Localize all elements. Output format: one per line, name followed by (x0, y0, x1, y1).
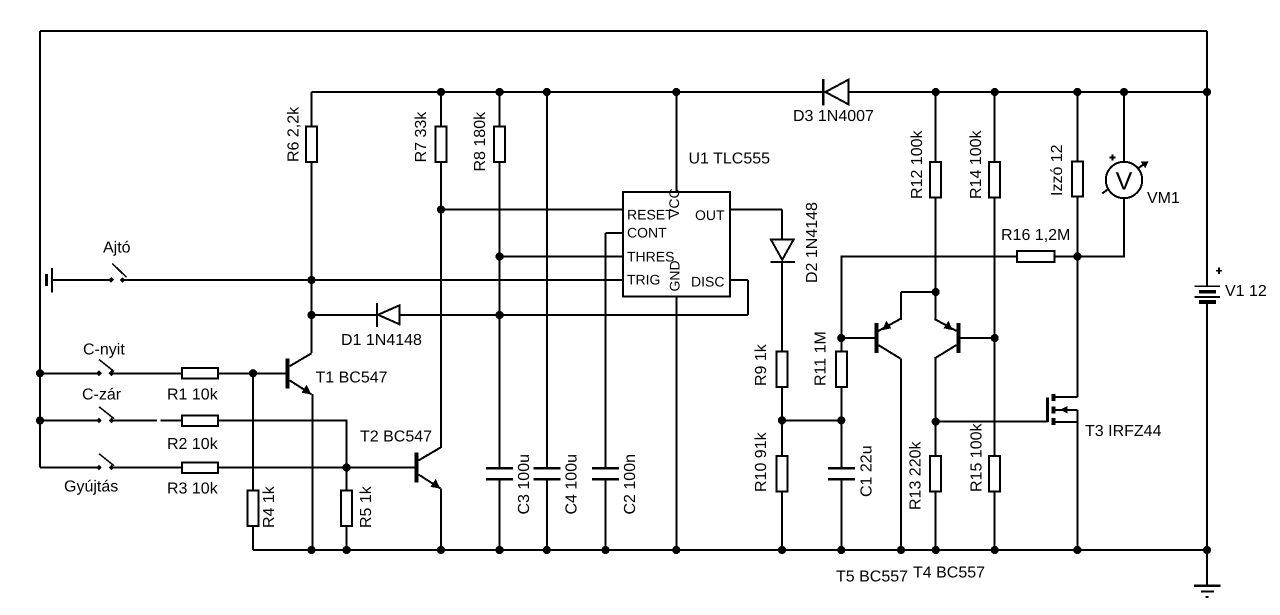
svg-text:T1 BC547: T1 BC547 (316, 370, 388, 387)
node bottom bus C4 (543, 546, 551, 554)
wire R15 bottom (994, 492, 996, 550)
resistor R1 (182, 368, 218, 379)
resistor R15 (989, 456, 1000, 492)
wire emitter bridge T5-T4 (901, 291, 936, 293)
node bottom bus C3 (496, 546, 504, 554)
svg-text:D2 1N4148: D2 1N4148 (804, 202, 821, 283)
wire RESET row (441, 209, 623, 211)
node R7 at VCC bus (437, 88, 445, 96)
wire left rail (39, 31, 41, 468)
wire T5 collector down (900, 359, 902, 551)
svg-text:Izzó 12: Izzó 12 (1049, 144, 1066, 196)
node bridge at R11-C1 column (837, 416, 845, 424)
node C-nyit at left rail (36, 369, 44, 377)
node bottom bus right rail (1203, 546, 1211, 554)
wire lamp bottom to T3 drain (1076, 196, 1078, 397)
node bottom bus U1 GND (672, 546, 680, 554)
wire C-nyit switch to R1 (112, 372, 183, 374)
ground symbol (1194, 585, 1221, 587)
wire U1 GND pin (675, 297, 677, 551)
wire CONT pin stub (606, 232, 624, 234)
transistor Q T5 BC557 (874, 323, 878, 353)
node VCC bus right end (1203, 88, 1211, 96)
resistor R9 (777, 352, 788, 388)
capacitor C1 22u (828, 467, 855, 470)
svg-text:U1 TLC555: U1 TLC555 (689, 151, 771, 168)
switch C-zar (96, 418, 102, 424)
wire VCC bus right of D3 (849, 91, 1208, 93)
resistor R8 (494, 127, 505, 163)
wire R13 bottom (935, 492, 937, 550)
svg-text:R8 180k: R8 180k (472, 111, 489, 172)
wire C-zar row left (40, 420, 99, 422)
wire R1 to T1 base (218, 372, 288, 374)
wire R14 bottom to R15 top (994, 198, 996, 456)
resistor R4 (248, 491, 259, 527)
wire voltmeter bottom corner (1077, 198, 1124, 257)
node T4 base at R14-R15 column (991, 334, 999, 342)
node R8 at VCC bus (496, 88, 504, 96)
wire C-nyit row left (40, 372, 99, 374)
svg-text:R11 1M: R11 1M (813, 331, 830, 386)
wire R7 bottom / T2 collector column (440, 162, 442, 448)
switch Gyujtas (96, 465, 102, 471)
wire T4 base (959, 337, 995, 339)
wire CONT to C2 column (605, 233, 607, 467)
wire C4 bottom (546, 481, 548, 550)
node R14 at VCC bus (991, 88, 999, 96)
svg-text:DISC: DISC (691, 274, 724, 290)
wire T3 gate (936, 421, 1048, 423)
wire R8 top (499, 92, 501, 127)
wire T3 source down (1076, 410, 1078, 550)
battery plus sign (1216, 270, 1222, 272)
resistor R11 (836, 352, 847, 388)
wire C-zar switch segment (112, 420, 158, 422)
wire R5 bottom (346, 526, 348, 550)
resistor R2 (182, 415, 218, 426)
wire Gyujtas switch to R3 (112, 467, 183, 469)
wire R6 bottom / T1 collector column (311, 162, 313, 353)
wire R6 top (311, 92, 313, 127)
svg-text:R16 1,2M: R16 1,2M (1001, 227, 1070, 244)
transistor T3 IRFZ44 MOSFET (1046, 398, 1049, 423)
wire R10 bottom (781, 492, 783, 551)
wire R11 column top corner to R16 row (841, 257, 1017, 352)
node C4 at VCC bus (543, 88, 551, 96)
wire R7 top (440, 92, 442, 127)
diode D2 1N4148 (771, 240, 794, 260)
node lamp at VCC bus (1073, 88, 1081, 96)
IC U1 TLC555 body (623, 192, 730, 297)
node THRES at R8 column (496, 252, 504, 260)
resistor R13 (930, 456, 941, 492)
resistor R12 (930, 162, 941, 198)
node T4 collector / T3 gate junction (932, 418, 940, 426)
voltmeter arrow (1102, 164, 1144, 194)
node bottom bus T1 emitter (307, 546, 315, 554)
svg-text:R5 1k: R5 1k (358, 485, 375, 528)
resistor R6 (306, 127, 317, 163)
svg-text:R15 100k: R15 100k (969, 423, 986, 492)
svg-text:C3 100u: C3 100u (516, 454, 533, 515)
capacitor C4 100u (533, 467, 560, 470)
node emitter bridge at R12 column (932, 288, 940, 296)
switch Ajto (108, 277, 114, 283)
capacitor C3 100u (486, 467, 513, 470)
svg-text:VCC: VCC (666, 188, 682, 218)
svg-text:C1 22u: C1 22u (859, 445, 876, 497)
node Ajto-TRIG junction (307, 276, 315, 284)
svg-text:V: V (1116, 168, 1133, 196)
node C-zar at left rail (36, 416, 44, 424)
wire R12 bottom to emitter bridge (935, 198, 937, 292)
svg-text:R3 10k: R3 10k (167, 481, 219, 498)
wire OUT pin stub (730, 209, 782, 211)
wire R16 right to lamp column (1055, 256, 1078, 258)
svg-text:R2 10k: R2 10k (167, 436, 219, 453)
wire C2 bottom (605, 481, 607, 550)
wire R9 bottom to R10 top (781, 386, 783, 456)
wire R11 bottom to C1 (840, 386, 842, 467)
wire R5 column (346, 468, 348, 491)
svg-text:V1 12: V1 12 (1225, 283, 1267, 300)
svg-text:C4 100u: C4 100u (564, 454, 581, 515)
wire C4 column (546, 92, 548, 467)
node bottom bus C1 (837, 546, 845, 554)
lamp Izzo 12 (1072, 162, 1083, 197)
wire D1 row right to DISC loop (400, 314, 749, 316)
wire lamp top (1076, 92, 1078, 162)
wire OUT to D2 anode (781, 210, 783, 241)
svg-text:R14 100k: R14 100k (968, 130, 985, 199)
resistor R7 (436, 127, 447, 163)
wire D2 cathode to R9 (781, 262, 783, 352)
wire C1 bottom (840, 481, 842, 550)
wire voltmeter top (1123, 92, 1125, 162)
svg-text:T3 IRFZ44: T3 IRFZ44 (1085, 423, 1162, 440)
wire Gyujtas row left (40, 467, 99, 469)
door contact cell symbol (45, 274, 48, 286)
svg-text:D3 1N4007: D3 1N4007 (793, 108, 874, 125)
svg-text:R4 1k: R4 1k (261, 485, 278, 528)
svg-text:CONT: CONT (627, 225, 667, 241)
node bottom bus T3 source (1073, 546, 1081, 554)
svg-text:C-zár: C-zár (82, 387, 122, 404)
node D1 row at C3 column (496, 311, 504, 319)
svg-text:R9 1k: R9 1k (753, 343, 770, 386)
node R1-R4-T1 base junction (249, 369, 257, 377)
resistor R10 (777, 456, 788, 492)
node bottom bus C2 (601, 546, 609, 554)
node U1 VCC at bus (672, 88, 680, 96)
wire DISC pin stub (730, 279, 748, 281)
svg-text:Ajtó: Ajtó (103, 240, 131, 257)
voltmeter VM1 circle (1106, 162, 1142, 198)
node bottom bus R13 (932, 546, 940, 554)
transistor Q T2 BC547 (415, 453, 419, 483)
wire T5 emitter up (900, 292, 902, 320)
node bottom bus T2 emitter (437, 546, 445, 554)
wire R8 bottom to C3 (499, 162, 501, 467)
node bottom bus R5 (343, 546, 351, 554)
node bottom bus R15 (991, 546, 999, 554)
wire VCC bus left of D3 (312, 91, 823, 93)
resistor R16 1,2M (1017, 251, 1055, 262)
svg-text:VM1: VM1 (1147, 190, 1180, 207)
transistor Q T1 BC547 (286, 358, 290, 388)
wire R4 column (252, 373, 254, 490)
wire right rail upper (1206, 31, 1208, 287)
wire DISC loop vertical (747, 280, 749, 315)
switch C-nyit (96, 371, 102, 377)
wire door contact to switch (52, 279, 111, 281)
wire T1 emitter column (312, 394, 314, 550)
wire R3 to T2 base (218, 467, 417, 469)
battery V1 12 (1195, 285, 1221, 287)
wire top supply bus (40, 30, 1207, 32)
node R12 at VCC bus (932, 88, 940, 96)
node voltmeter at VCC bus (1120, 88, 1128, 96)
wire Ajto switch to TRIG pin (123, 279, 623, 281)
svg-text:R1 10k: R1 10k (167, 387, 219, 404)
svg-text:GND: GND (667, 260, 683, 291)
wire R12 top (935, 92, 937, 162)
svg-text:C2 100n: C2 100n (622, 454, 639, 515)
node bottom bus R10 (778, 546, 786, 554)
wire T2 emitter column (440, 489, 442, 551)
svg-text:OUT: OUT (695, 207, 725, 223)
wire C-zar gap segment to R2 (161, 420, 183, 422)
node T5 base junction (837, 334, 845, 342)
diode D3 1N4007 (822, 79, 824, 105)
wire R4 bottom corner (252, 526, 254, 550)
resistor R14 (989, 162, 1000, 198)
node bottom bus T5 collector (897, 546, 905, 554)
wire T4 emitter down from bridge (935, 292, 937, 320)
svg-text:R13 220k: R13 220k (908, 441, 925, 510)
wire T4 collector column (935, 359, 937, 457)
svg-text:TRIG: TRIG (627, 272, 660, 288)
node R3-R5-T2 base junction (343, 463, 351, 471)
wire THRES row (500, 256, 623, 258)
wire U1 VCC pin (675, 92, 677, 192)
svg-text:R7 33k: R7 33k (413, 111, 430, 163)
node R16-lamp-voltmeter junction (1073, 252, 1081, 260)
svg-text:T5 BC557: T5 BC557 (836, 569, 908, 586)
capacitor C2 100n (592, 467, 619, 470)
wire R9-R11 bridge (782, 419, 841, 421)
wire R14 top (994, 92, 996, 162)
voltmeter plus sign (1110, 157, 1116, 159)
svg-text:T2 BC547: T2 BC547 (360, 429, 432, 446)
wire R2 right corner down (218, 421, 347, 468)
wire D1 row left (312, 314, 378, 316)
svg-text:R10 91k: R10 91k (753, 431, 770, 492)
svg-text:T4 BC557: T4 BC557 (913, 565, 985, 582)
node D1 row junction at T1 collector (307, 311, 315, 319)
diode D1 1N4148 (376, 303, 378, 327)
node RESET at R7 column (437, 205, 445, 213)
transistor Q T4 BC557 (957, 323, 961, 353)
svg-text:C-nyit: C-nyit (83, 342, 125, 359)
wire T5 base (841, 337, 874, 339)
svg-text:R12 100k: R12 100k (909, 130, 926, 199)
node R9-R10 junction (778, 416, 786, 424)
resistor R3 (182, 462, 218, 473)
resistor R5 (341, 491, 352, 527)
wire bottom ground bus (253, 549, 1207, 551)
svg-text:D1 1N4148: D1 1N4148 (341, 332, 422, 349)
wire right rail lower (1206, 302, 1208, 586)
svg-text:R6 2,2k: R6 2,2k (286, 106, 303, 162)
wire C3 bottom (499, 481, 501, 550)
svg-text:Gyújtás: Gyújtás (64, 479, 118, 496)
